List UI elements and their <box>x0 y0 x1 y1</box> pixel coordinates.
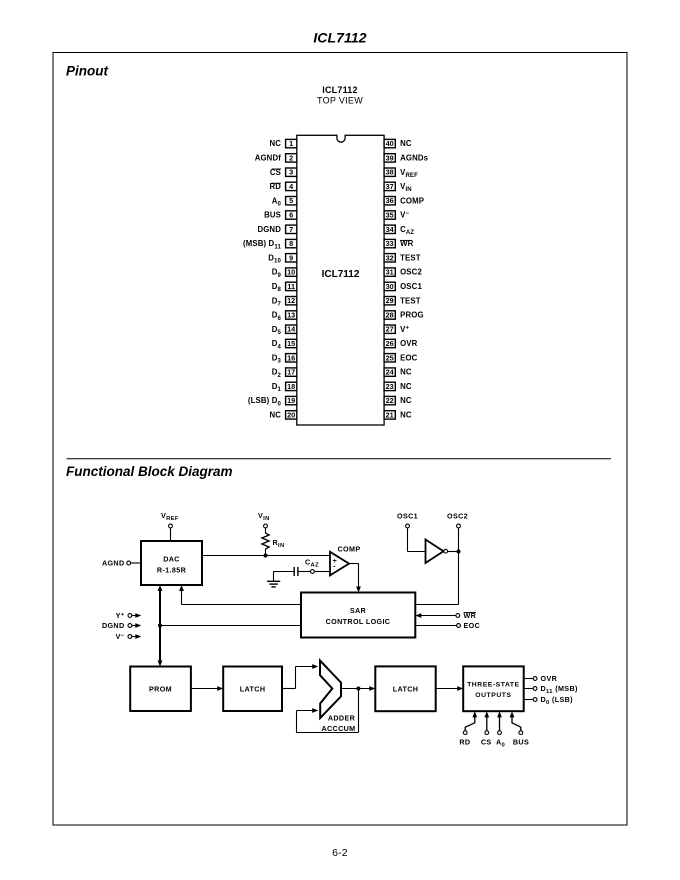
ground <box>273 572 275 582</box>
svg-text:20: 20 <box>287 410 295 419</box>
svg-text:D1: D1 <box>272 382 282 393</box>
svg-text:THREE-STATE: THREE-STATE <box>467 681 520 688</box>
pin 11 box <box>286 282 297 290</box>
separator line <box>67 458 612 460</box>
svg-text:DGND: DGND <box>257 225 281 234</box>
svg-text:9: 9 <box>289 253 293 262</box>
svg-text:BUS: BUS <box>264 211 281 220</box>
svg-text:PROG: PROG <box>400 311 424 320</box>
svg-text:OVR: OVR <box>400 339 418 348</box>
svg-text:VIN: VIN <box>258 511 270 522</box>
pin 22 box <box>384 396 395 404</box>
junction adder output <box>356 687 360 691</box>
ADDER ACCCUM chevron <box>320 661 341 719</box>
wire RIN to junction <box>265 549 267 556</box>
svg-text:NC: NC <box>400 139 412 148</box>
svg-text:OSC2: OSC2 <box>447 512 468 521</box>
wire EOC from SAR <box>415 625 456 627</box>
svg-text:LATCH: LATCH <box>393 684 419 693</box>
pin 10 box <box>286 268 297 276</box>
pin 7 box <box>286 225 297 233</box>
svg-text:OUTPUTS: OUTPUTS <box>475 692 511 699</box>
LATCH block 1 <box>223 667 282 712</box>
junction OSC2 <box>457 550 461 554</box>
pin 33 box <box>384 239 395 247</box>
svg-text:14: 14 <box>287 325 296 334</box>
pin 23 box <box>384 382 395 390</box>
node BUS control terminal <box>519 731 523 735</box>
junction VIN/DAC node <box>264 554 268 558</box>
svg-text:30: 30 <box>386 282 394 291</box>
svg-text:ICL7112: ICL7112 <box>322 269 360 280</box>
wire bus to SAR <box>160 625 301 627</box>
svg-text:D11 (MSB): D11 (MSB) <box>541 684 578 695</box>
svg-text:12: 12 <box>287 296 295 305</box>
svg-text:CAZ: CAZ <box>400 225 414 236</box>
wire VREF to DAC <box>170 528 172 541</box>
node OVR output <box>524 678 534 680</box>
svg-text:28: 28 <box>386 311 394 320</box>
svg-text:D9: D9 <box>272 268 282 279</box>
THREE-STATE OUTPUTS block <box>463 666 524 711</box>
svg-text:CS: CS <box>481 738 492 747</box>
svg-text:D6: D6 <box>272 311 282 322</box>
wire VIN to RIN <box>265 528 267 533</box>
svg-text:NC: NC <box>269 139 281 148</box>
svg-text:VIN: VIN <box>400 182 412 193</box>
svg-text:A0: A0 <box>272 196 282 207</box>
wire comparator output to SAR <box>349 563 359 565</box>
pin 21 box <box>384 411 395 419</box>
svg-text:RD: RD <box>459 738 470 747</box>
svg-text:TEST: TEST <box>400 296 421 305</box>
pin 1 box <box>286 139 297 147</box>
svg-text:SAR: SAR <box>350 606 367 615</box>
svg-text:PROM: PROM <box>149 684 172 693</box>
svg-text:7: 7 <box>289 225 293 234</box>
wire CAZ to comparator inverting input <box>298 571 311 573</box>
pin 8 box <box>286 239 297 247</box>
capacitor CAZ <box>293 567 295 576</box>
svg-text:TEST: TEST <box>400 253 421 262</box>
wire LATCH2 to three-state outputs <box>436 688 459 690</box>
pin 2 box <box>286 154 297 162</box>
pin 39 box <box>384 154 395 162</box>
svg-text:OSC1: OSC1 <box>397 512 418 521</box>
svg-text:15: 15 <box>287 339 295 348</box>
svg-text:(MSB) D11: (MSB) D11 <box>243 239 282 250</box>
node A0 control terminal <box>498 731 502 735</box>
svg-text:V−: V− <box>116 632 125 641</box>
svg-text:34: 34 <box>386 225 395 234</box>
junction DGND bus <box>158 624 162 628</box>
pin 24 box <box>384 368 395 376</box>
svg-text:27: 27 <box>386 325 394 334</box>
pin 29 box <box>384 297 395 305</box>
wire accumulator feedback <box>358 689 360 733</box>
node WR terminal <box>456 614 460 618</box>
svg-text:29: 29 <box>386 296 394 305</box>
svg-text:DGND: DGND <box>102 621 125 630</box>
pin 3 box <box>286 168 297 176</box>
wire OSC1 to buffer <box>407 528 409 552</box>
pin 14 box <box>286 325 297 333</box>
svg-text:21: 21 <box>386 410 394 419</box>
wire AGND to DAC <box>131 562 141 564</box>
svg-text:EOC: EOC <box>464 621 481 630</box>
pin 17 box <box>286 368 297 376</box>
svg-text:AGNDs: AGNDs <box>400 154 429 163</box>
PROM block <box>130 667 191 712</box>
svg-text:OSC2: OSC2 <box>400 268 422 277</box>
pin 38 box <box>384 168 395 176</box>
svg-text:38: 38 <box>386 168 394 177</box>
svg-text:V−: V− <box>400 211 409 220</box>
LATCH block 2 <box>375 666 435 711</box>
pin 25 box <box>384 354 395 362</box>
svg-text:VREF: VREF <box>400 168 418 179</box>
svg-text:25: 25 <box>386 353 394 362</box>
pin 12 box <box>286 297 297 305</box>
svg-text:BUS: BUS <box>513 738 529 747</box>
wire OSC2 down to SAR <box>458 528 460 605</box>
svg-text:13: 13 <box>287 311 295 320</box>
pin 27 box <box>384 325 395 333</box>
svg-text:18: 18 <box>287 382 295 391</box>
op-amp comparator COMP <box>330 552 349 576</box>
svg-text:COMP: COMP <box>400 196 424 205</box>
svg-text:33: 33 <box>386 239 394 248</box>
svg-text:NC: NC <box>400 368 412 377</box>
svg-text:D5: D5 <box>272 325 282 336</box>
svg-text:A0: A0 <box>496 738 505 749</box>
pin 28 box <box>384 311 395 319</box>
pin 32 box <box>384 254 395 262</box>
svg-text:Y+: Y+ <box>116 611 125 620</box>
node RD control terminal <box>463 731 467 735</box>
svg-text:CAZ: CAZ <box>305 558 319 569</box>
pin 35 box <box>384 211 395 219</box>
svg-text:ICL7112: ICL7112 <box>322 85 357 95</box>
node D0 (LSB) output <box>524 699 534 701</box>
pin 9 box <box>286 254 297 262</box>
svg-text:OSC1: OSC1 <box>400 282 422 291</box>
svg-text:26: 26 <box>386 339 394 348</box>
svg-text:RIN: RIN <box>273 538 285 549</box>
node EOC terminal <box>457 624 461 628</box>
svg-text:D7: D7 <box>272 296 282 307</box>
svg-text:11: 11 <box>287 282 295 291</box>
pin 16 box <box>286 354 297 362</box>
svg-text:22: 22 <box>386 396 394 405</box>
pin 20 box <box>286 411 297 419</box>
svg-text:3: 3 <box>289 168 293 177</box>
svg-text:39: 39 <box>386 153 394 162</box>
wire DAC to comparator noninverting input <box>202 555 330 557</box>
svg-text:EOC: EOC <box>400 353 418 362</box>
pin 13 box <box>286 311 297 319</box>
page border frame <box>53 53 627 826</box>
svg-text:TOP VIEW: TOP VIEW <box>317 96 363 106</box>
svg-text:ACCCUM: ACCCUM <box>321 724 355 733</box>
wire PROM to LATCH <box>191 688 219 690</box>
wire DAC to PROM bus <box>159 589 161 663</box>
wire ground to CAZ <box>274 571 294 573</box>
svg-text:1: 1 <box>289 139 293 148</box>
wire WR to SAR <box>421 615 456 617</box>
svg-text:VREF: VREF <box>161 511 179 522</box>
pin 37 box <box>384 182 395 190</box>
resistor RIN <box>262 533 269 549</box>
node CS control terminal <box>485 731 489 735</box>
svg-text:NC: NC <box>400 411 412 420</box>
pin 19 box <box>286 396 297 404</box>
pin 26 box <box>384 339 395 347</box>
svg-text:37: 37 <box>386 182 394 191</box>
pin 30 box <box>384 282 395 290</box>
svg-text:6: 6 <box>289 211 293 220</box>
svg-text:10: 10 <box>287 268 295 277</box>
pin 40 box <box>384 139 395 147</box>
svg-text:D4: D4 <box>272 339 282 350</box>
buffer oscillator inverter <box>426 540 444 564</box>
svg-text:D8: D8 <box>272 282 282 293</box>
svg-text:NC: NC <box>269 411 281 420</box>
svg-text:ADDER: ADDER <box>328 714 356 723</box>
pin 31 box <box>384 268 395 276</box>
svg-text:D0 (LSB): D0 (LSB) <box>541 695 574 706</box>
svg-text:(LSB) D0: (LSB) D0 <box>248 396 282 407</box>
svg-text:5: 5 <box>289 196 293 205</box>
wire adder output <box>341 688 371 690</box>
svg-text:NC: NC <box>400 396 412 405</box>
svg-text:36: 36 <box>386 196 394 205</box>
pin 34 box <box>384 225 395 233</box>
DAC block U-DAC <box>141 541 202 585</box>
svg-text:Functional Block Diagram: Functional Block Diagram <box>66 464 233 479</box>
svg-text:V+: V+ <box>400 325 409 334</box>
svg-text:6-2: 6-2 <box>332 847 348 859</box>
svg-text:COMP: COMP <box>338 545 361 554</box>
svg-text:35: 35 <box>386 211 394 220</box>
wire SAR to DAC feedback <box>182 604 302 606</box>
svg-text:19: 19 <box>287 396 295 405</box>
svg-text:NC: NC <box>400 382 412 391</box>
node D11 (MSB) output <box>524 688 534 690</box>
pin 18 box <box>286 382 297 390</box>
pin 36 box <box>384 197 395 205</box>
svg-text:LATCH: LATCH <box>240 684 266 693</box>
svg-text:2: 2 <box>289 153 293 162</box>
svg-text:OVR: OVR <box>541 674 558 683</box>
svg-text:31: 31 <box>386 268 394 277</box>
pin 4 box <box>286 182 297 190</box>
svg-text:32: 32 <box>386 253 394 262</box>
IC package body ICL7112 <box>297 135 384 425</box>
svg-text:R-1.85R: R-1.85R <box>157 566 187 575</box>
svg-text:40: 40 <box>386 139 394 148</box>
svg-text:16: 16 <box>287 353 295 362</box>
svg-text:D3: D3 <box>272 353 282 364</box>
wire buffer output to OSC2 line <box>448 551 459 553</box>
node CAZ terminal <box>311 570 315 574</box>
pin 5 box <box>286 197 297 205</box>
svg-text:D10: D10 <box>268 253 281 264</box>
svg-text:8: 8 <box>289 239 293 248</box>
svg-text:ICL7112: ICL7112 <box>313 30 366 46</box>
wire LATCH to adder input A <box>282 688 296 690</box>
svg-text:DAC: DAC <box>163 555 180 564</box>
pin 6 box <box>286 211 297 219</box>
svg-text:Pinout: Pinout <box>66 64 108 79</box>
svg-text:D2: D2 <box>272 368 282 379</box>
svg-text:AGNDf: AGNDf <box>255 154 282 163</box>
SAR CONTROL LOGIC block <box>301 593 415 638</box>
svg-text:CONTROL LOGIC: CONTROL LOGIC <box>326 617 391 626</box>
svg-text:24: 24 <box>386 368 395 377</box>
svg-text:AGND: AGND <box>102 559 125 568</box>
pin 15 box <box>286 339 297 347</box>
svg-text:17: 17 <box>287 368 295 377</box>
svg-text:23: 23 <box>386 382 394 391</box>
